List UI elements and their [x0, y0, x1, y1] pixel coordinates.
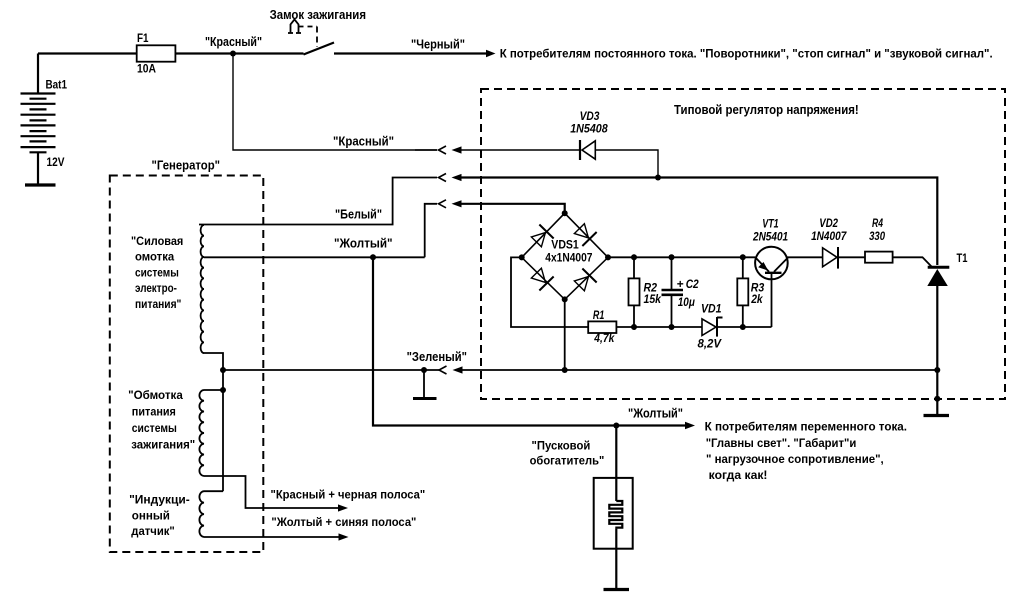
wire: R4 to T1 gate — [893, 257, 932, 266]
node rail F bridge — [562, 367, 568, 373]
connector chevron row3 — [439, 200, 447, 208]
svg-text:обогатитель": обогатитель" — [530, 454, 605, 468]
bridge VDS1 4x1N4007 — [519, 210, 611, 302]
svg-text:4x1N4007: 4x1N4007 — [545, 251, 592, 265]
zener VD1 8,2V — [698, 301, 723, 350]
label Пусковой обогатитель — [530, 439, 605, 468]
arrow red+black stripe — [338, 504, 348, 511]
svg-text:"Жолтый + синяя полоса": "Жолтый + синяя полоса" — [271, 515, 416, 529]
diode VD3 1N5408 — [570, 109, 608, 160]
node T1 box crossing — [934, 396, 940, 402]
svg-text:2k: 2k — [750, 292, 763, 306]
wire: yellow down and to AC arrow — [373, 257, 687, 425]
node bridge right — [605, 254, 611, 260]
wire: switch to black arrow — [334, 52, 489, 54]
generator box — [110, 176, 263, 553]
node yellow tap junction — [370, 254, 376, 260]
wire: battery to fuse — [38, 52, 137, 54]
arrow green — [453, 366, 463, 373]
wire: top rail D — [608, 256, 755, 258]
transistor VT1 2N5401 — [752, 217, 788, 328]
arrow to AC consumers — [685, 422, 695, 430]
ground (battery) — [25, 183, 56, 186]
wire: bridge left down to R1 row — [511, 257, 588, 327]
svg-text:T1: T1 — [957, 251, 968, 265]
wire: red down from junction — [233, 54, 415, 151]
label power winding — [131, 234, 183, 311]
node bridge left — [519, 254, 525, 260]
node: red wire junction — [230, 51, 236, 57]
battery Bat1 — [21, 54, 68, 185]
svg-text:10μ: 10μ — [678, 295, 696, 309]
svg-text:датчик": датчик" — [131, 524, 175, 538]
svg-text:"Жолтый": "Жолтый" — [628, 406, 683, 421]
diode TR (T to R) — [572, 222, 596, 246]
diode VD2 1N4007 — [811, 216, 847, 269]
ground (T1) — [924, 414, 950, 417]
arrow to DC consumers — [486, 50, 496, 58]
svg-text:когда как!: когда как! — [709, 468, 768, 482]
svg-text:"Красный": "Красный" — [333, 134, 394, 149]
node bridge top — [562, 210, 568, 216]
wire: bridge bottom to ground rail — [564, 299, 566, 370]
node enrichment junction — [613, 423, 619, 429]
svg-text:12V: 12V — [47, 155, 65, 169]
svg-text:омотка: омотка — [135, 250, 175, 264]
svg-text:C2: C2 — [686, 277, 699, 291]
svg-text:питания": питания" — [135, 297, 181, 311]
wire: L1 bottom lead — [204, 353, 223, 491]
resistor R4 330 — [865, 216, 893, 263]
wire: VT1 collector to VD2 — [788, 256, 823, 258]
svg-text:системы: системы — [135, 265, 179, 279]
svg-text:системы: системы — [132, 421, 177, 435]
capacitor C2 10u — [662, 254, 699, 330]
svg-text:"Силовая: "Силовая — [131, 234, 183, 248]
resistor R2 15k — [629, 254, 663, 330]
resistor R3 2k — [737, 254, 764, 330]
svg-text:1N5408: 1N5408 — [570, 122, 608, 136]
svg-text:Типовой регулятор напряжения!: Типовой регулятор напряжения! — [674, 102, 859, 117]
svg-text:" нагрузочное сопротивление",: " нагрузочное сопротивление", — [706, 452, 884, 466]
diode BR (B to R) — [572, 269, 596, 293]
label ignition winding — [128, 388, 195, 452]
svg-text:VD2: VD2 — [819, 216, 838, 230]
wire: L2 bottom lead — [204, 476, 340, 508]
svg-text:330: 330 — [869, 229, 885, 243]
svg-text:VDS1: VDS1 — [551, 237, 579, 251]
connector chevron row1 — [439, 146, 447, 154]
label induction sensor — [129, 493, 190, 538]
wire: row3 to bridge top — [460, 204, 565, 213]
svg-text:зажигания": зажигания" — [131, 438, 195, 452]
winding L1 power coil — [201, 225, 204, 353]
svg-text:8,2V: 8,2V — [698, 336, 722, 350]
wire: VD2 to R4 — [838, 256, 865, 258]
svg-text:R4: R4 — [872, 216, 883, 230]
winding L3 induction sensor — [199, 491, 204, 537]
wire: yellow tap — [204, 256, 425, 258]
node bridge bottom — [562, 296, 568, 302]
svg-text:"Генератор": "Генератор" — [152, 158, 221, 173]
node VD3-railB — [655, 175, 661, 181]
wire: L2 top lead — [204, 389, 223, 391]
wire: green line — [223, 369, 439, 371]
node green ground junction — [421, 367, 427, 373]
svg-text:+: + — [677, 277, 684, 291]
svg-text:Bat1: Bat1 — [46, 78, 68, 92]
fuse F1 10A — [137, 31, 176, 76]
svg-text:10A: 10A — [137, 62, 156, 76]
winding L2 ignition coil — [199, 390, 204, 476]
svg-text:К потребителям переменного ток: К потребителям переменного тока. — [705, 420, 907, 434]
wire: ground rail F — [461, 369, 937, 371]
svg-text:1N4007: 1N4007 — [811, 229, 847, 243]
arrow row2 — [452, 174, 462, 181]
svg-text:2N5401: 2N5401 — [752, 230, 788, 244]
diamond — [522, 213, 608, 299]
svg-text:15k: 15k — [644, 292, 663, 306]
svg-text:"Белый": "Белый" — [335, 207, 382, 222]
svg-text:F1: F1 — [137, 31, 149, 45]
svg-text:"Главны свет". "Габарит"и: "Главны свет". "Габарит"и — [706, 436, 857, 450]
diode BL (L to B) — [529, 266, 553, 290]
svg-text:электро-: электро- — [135, 281, 177, 295]
svg-text:питания: питания — [132, 405, 176, 419]
wire: L3 top lead — [204, 490, 223, 492]
arrow row1 — [452, 146, 462, 153]
arrow yellow+blue stripe — [339, 533, 349, 540]
svg-text:"Жолтый": "Жолтый" — [334, 236, 393, 251]
svg-text:Замок зажигания: Замок зажигания — [270, 7, 366, 22]
svg-text:"Индукци-: "Индукци- — [129, 493, 190, 507]
arrow row3 — [452, 200, 462, 207]
svg-text:VT1: VT1 — [762, 217, 779, 231]
wire: L3 bottom lead — [204, 536, 340, 538]
wire: fuse to switch — [175, 52, 303, 54]
svg-text:VD1: VD1 — [701, 301, 722, 315]
svg-text:"Зеленый": "Зеленый" — [407, 349, 467, 364]
svg-text:"Пусковой: "Пусковой — [532, 439, 591, 453]
svg-text:К потребителям постоянного ток: К потребителям постоянного тока. "Поворо… — [500, 46, 993, 60]
regulator box — [481, 89, 1005, 399]
wire: VD3 to rail B — [595, 150, 658, 178]
svg-text:4,7k: 4,7k — [593, 331, 615, 345]
node L2 top junction — [220, 387, 226, 393]
thyristor T1 — [927, 251, 967, 370]
wire: white from generator — [199, 178, 437, 225]
connector chevron row2 — [439, 174, 447, 182]
wire: row3 riser from yellow — [425, 204, 437, 257]
node rail F T1 — [934, 367, 940, 373]
starting enrichment coil — [594, 426, 633, 589]
svg-text:"Черный": "Черный" — [411, 37, 465, 52]
svg-text:"Красный + черная полоса": "Красный + черная полоса" — [271, 488, 426, 502]
wire: T1 to ground — [936, 370, 938, 414]
wire: rail E (R1 to VT1 base) — [616, 326, 702, 328]
svg-text:онный: онный — [132, 508, 170, 522]
svg-text:"Красный": "Красный" — [205, 34, 262, 49]
ground (green wire) — [413, 370, 437, 399]
svg-text:R1: R1 — [593, 308, 605, 322]
resistor R1 4,7k — [588, 308, 616, 345]
diode TL (L to T) — [529, 225, 553, 249]
ground (enrichment) — [604, 588, 630, 591]
wire: rail B to T1 — [460, 178, 937, 266]
connector chevron green — [439, 366, 447, 374]
node green-gen junction — [220, 367, 226, 373]
ignition switch (Замок зажигания) — [270, 7, 366, 55]
svg-text:"Обмотка: "Обмотка — [128, 388, 183, 402]
